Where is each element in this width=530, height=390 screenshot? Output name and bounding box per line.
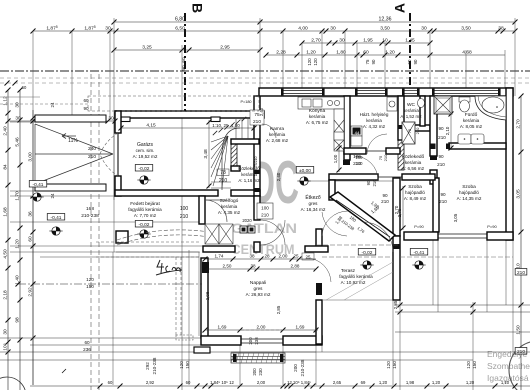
terasz diag hatch lines <box>326 262 393 300</box>
dimension row 4 top <box>266 54 505 56</box>
long dim line left-middle 120/150 <box>18 283 202 285</box>
black fixture squares <box>240 226 247 233</box>
svg-text:A: 6,56 m2: A: 6,56 m2 <box>402 166 425 171</box>
svg-text:120: 120 <box>179 361 184 369</box>
svg-text:200: 200 <box>252 368 257 376</box>
wall: wc inner divider <box>420 96 425 126</box>
nappali south steps band <box>231 353 285 363</box>
svg-text:kerámia: kerámia <box>366 118 382 123</box>
svg-text:1,40: 1,40 <box>15 275 21 285</box>
svg-text:28: 28 <box>264 254 270 259</box>
window: right wing bottom <box>438 233 487 235</box>
wall: entry bottom piece <box>231 190 260 196</box>
wall: nappali wing right upper <box>393 178 400 236</box>
dimension row 1 top <box>114 21 515 23</box>
svg-text:P=90: P=90 <box>414 224 424 229</box>
svg-text:2,08: 2,08 <box>205 291 210 300</box>
svg-text:210-238: 210-238 <box>152 357 157 374</box>
svg-text:2,85: 2,85 <box>393 300 398 309</box>
door arc hazt <box>367 134 387 154</box>
svg-text:30: 30 <box>105 26 111 32</box>
wc bowl <box>418 99 425 108</box>
svg-text:2,92: 2,92 <box>146 380 155 385</box>
svg-text:200: 200 <box>248 337 253 345</box>
svg-text:kerámia: kerámia <box>403 108 419 113</box>
svg-text:210: 210 <box>439 199 447 204</box>
svg-text:1,20: 1,20 <box>466 380 475 385</box>
svg-text:10: 10 <box>382 38 388 44</box>
svg-text:12 10⁵ 1,84⁵: 12 10⁵ 1,84⁵ <box>287 380 311 385</box>
svg-text:60: 60 <box>363 50 369 56</box>
svg-text:2,28: 2,28 <box>276 50 286 56</box>
door 75/210 kamra <box>250 110 264 125</box>
wall: house top <box>259 88 513 96</box>
svg-text:4,50: 4,50 <box>3 249 9 259</box>
svg-text:210: 210 <box>261 213 269 218</box>
svg-text:25: 25 <box>293 254 299 259</box>
svg-text:230: 230 <box>258 368 263 376</box>
svg-text:5,46: 5,46 <box>15 137 21 147</box>
windows in house top wall <box>283 91 498 94</box>
horizontal extension lines left <box>10 122 393 257</box>
svg-text:240: 240 <box>88 146 96 152</box>
svg-text:292: 292 <box>145 362 150 370</box>
svg-text:11%: 11% <box>68 138 78 144</box>
svg-text:98: 98 <box>15 317 21 323</box>
svg-text:2,00: 2,00 <box>257 380 266 385</box>
svg-text:30: 30 <box>339 38 345 44</box>
nappali bottom dims <box>205 329 318 331</box>
szelfogo cabinets X <box>205 224 233 244</box>
pier bumps under garage top wall <box>121 117 130 122</box>
svg-text:78: 78 <box>220 170 226 176</box>
svg-text:12,36: 12,36 <box>379 17 392 23</box>
garage dims outer left <box>8 120 115 122</box>
svg-text:120: 120 <box>386 361 391 369</box>
svg-text:1,20: 1,20 <box>385 50 395 56</box>
wall: wc bottom <box>404 125 430 131</box>
svg-text:210: 210 <box>415 127 420 134</box>
svg-text:38: 38 <box>249 254 255 259</box>
svg-text:Házt. helyiség: Házt. helyiség <box>360 112 389 117</box>
svg-text:150: 150 <box>392 361 397 369</box>
svg-text:kerámia: kerámia <box>405 160 422 165</box>
svg-text:A: 14,35 m2: A: 14,35 m2 <box>457 196 482 201</box>
svg-text:1,74: 1,74 <box>215 254 224 259</box>
svg-text:2,85: 2,85 <box>276 305 281 314</box>
washing machines <box>351 126 362 136</box>
svg-text:6,50: 6,50 <box>175 26 185 32</box>
svg-text:2,92: 2,92 <box>28 287 34 297</box>
svg-text:P=180: P=180 <box>240 100 251 104</box>
wall: hazt/wc divider hatched <box>398 96 404 140</box>
svg-text:30: 30 <box>421 26 427 32</box>
wall: etkezo/terasz stub left <box>316 229 322 246</box>
svg-text:A: 4,32 m2: A: 4,32 m2 <box>363 124 386 129</box>
svg-text:A: 19,52 m2: A: 19,52 m2 <box>133 154 158 159</box>
svg-text:-0,41: -0,41 <box>51 215 62 221</box>
svg-text:1,80: 1,80 <box>336 50 346 56</box>
svg-text:24: 24 <box>50 102 55 107</box>
svg-text:±0,00: ±0,00 <box>299 168 311 174</box>
wall: garage left top stub <box>115 111 121 133</box>
ramp triangle 11% <box>35 124 113 184</box>
wall: stair vestibule hatched <box>231 144 237 169</box>
svg-text:100: 100 <box>180 206 189 212</box>
wall: etkezo diagonal <box>330 192 395 241</box>
svg-text:90: 90 <box>382 193 388 198</box>
svg-text:69: 69 <box>361 380 366 385</box>
svg-text:2,95: 2,95 <box>220 45 230 51</box>
dimension row 2 top <box>33 30 515 32</box>
double sink bottom <box>458 134 471 144</box>
svg-text:90: 90 <box>371 59 376 64</box>
svg-text:1,70: 1,70 <box>15 191 21 201</box>
svg-text:36: 36 <box>28 211 34 217</box>
watermark stamp text bottom right <box>487 349 530 383</box>
svg-text:3,48: 3,48 <box>203 149 209 159</box>
svg-text:30: 30 <box>3 329 9 335</box>
svg-text:-0,41: -0,41 <box>33 182 44 188</box>
stair up slashes <box>213 117 246 135</box>
wall: furdo/szoba divider <box>449 143 506 149</box>
garage door <box>117 133 119 176</box>
svg-text:2,50: 2,50 <box>223 264 232 269</box>
svg-text:1,50: 1,50 <box>516 325 522 335</box>
svg-text:2,40: 2,40 <box>3 126 9 136</box>
svg-text:150: 150 <box>185 361 190 369</box>
etkezo door arcs <box>260 220 285 245</box>
svg-text:4,00: 4,00 <box>298 26 308 32</box>
wall: etkezo/kozlekedo bottom left segment <box>329 174 378 180</box>
svg-text:210: 210 <box>253 119 261 125</box>
svg-text:A: 8,49 m2: A: 8,49 m2 <box>404 196 427 201</box>
wall: szelfogo right lower <box>254 242 260 252</box>
svg-text:200: 200 <box>293 364 298 372</box>
svg-text:2,10: 2,10 <box>445 126 450 135</box>
entry door arc <box>205 200 227 222</box>
svg-text:210: 210 <box>180 214 189 220</box>
svg-text:2,70: 2,70 <box>311 38 321 44</box>
svg-text:3,05: 3,05 <box>453 213 458 222</box>
svg-text:gres: gres <box>309 201 319 206</box>
svg-text:210: 210 <box>381 199 389 204</box>
svg-text:60: 60 <box>186 380 191 385</box>
svg-text:84: 84 <box>3 164 9 170</box>
shower <box>434 96 452 114</box>
svg-text:Étkező: Étkező <box>305 194 321 201</box>
svg-text:120: 120 <box>313 58 318 66</box>
wall: szelfogo bottom <box>203 246 235 252</box>
wall: szelfogo right upper <box>254 196 260 220</box>
stamp circle bottom right <box>509 341 530 390</box>
wall: terasz right <box>393 236 400 300</box>
wall: etkezo east upper <box>329 180 335 200</box>
svg-text:2,40: 2,40 <box>276 172 281 181</box>
1,00 vdim <box>338 146 340 172</box>
wall: szoba top segment <box>402 174 435 180</box>
wall: szoba/szoba divider <box>433 178 439 232</box>
svg-text:2,70: 2,70 <box>394 205 399 214</box>
wall: nappali bottom right segment <box>283 336 322 345</box>
svg-text:38: 38 <box>250 264 256 269</box>
stamp circle bottom left <box>0 377 26 390</box>
wall: etkezo left / nappali left <box>201 258 208 338</box>
svg-text:90: 90 <box>438 154 444 159</box>
svg-text:75: 75 <box>407 128 412 133</box>
svg-text:3,50: 3,50 <box>380 26 390 32</box>
window dashes bottom left wall <box>176 335 193 340</box>
svg-text:10⁵: 10⁵ <box>3 343 9 350</box>
svg-text:-0,02: -0,02 <box>362 250 373 256</box>
svg-text:kerámia: kerámia <box>241 172 257 177</box>
svg-text:1,84⁵ 10⁵ 12: 1,84⁵ 10⁵ 12 <box>210 380 234 385</box>
hazt sink <box>387 97 397 111</box>
svg-text:3,50: 3,50 <box>461 26 471 32</box>
svg-text:210: 210 <box>372 179 377 187</box>
svg-text:2,00: 2,00 <box>279 254 288 259</box>
svg-text:4,68: 4,68 <box>462 50 472 56</box>
svg-text:2,88: 2,88 <box>291 264 300 269</box>
wc bowl furdo <box>459 97 470 102</box>
svg-text:A: 1,52 m2: A: 1,52 m2 <box>400 114 422 119</box>
svg-text:fagyálló kerámia: fagyálló kerámia <box>339 274 373 279</box>
terasz door arcs lens <box>322 211 348 236</box>
svg-text:210: 210 <box>356 161 364 166</box>
svg-text:3,00: 3,00 <box>28 152 34 162</box>
svg-text:1,20: 1,20 <box>379 380 388 385</box>
svg-text:60: 60 <box>108 380 113 385</box>
svg-text:44: 44 <box>355 131 360 136</box>
svg-text:75: 75 <box>365 59 370 64</box>
dimension row 3b left <box>114 49 260 51</box>
svg-text:1:10, 25, 1,00: 1:10, 25, 1,00 <box>212 123 240 128</box>
svg-text:3,05: 3,05 <box>516 189 522 199</box>
dimension row 3 top <box>302 42 430 44</box>
garage door arc dashed <box>100 133 118 176</box>
svg-text:1,10: 1,10 <box>501 380 510 385</box>
svg-text:90: 90 <box>366 180 371 185</box>
svg-text:gres: gres <box>254 286 264 291</box>
door 100/210 etkezo <box>257 203 273 219</box>
svg-text:6,80: 6,80 <box>175 17 185 23</box>
wall: nappali right (terasz left) <box>316 300 322 344</box>
wall: right wing bottom segment 1 <box>404 232 438 240</box>
svg-text:60: 60 <box>28 236 34 242</box>
svg-text:120: 120 <box>307 58 312 66</box>
svg-text:A: 16,34 m2: A: 16,34 m2 <box>301 207 326 212</box>
svg-text:210: 210 <box>383 154 388 161</box>
bottom long lines <box>0 303 530 361</box>
wall: kozlekedo/furdo stub <box>430 170 437 184</box>
stair walk line <box>222 128 240 190</box>
property boundary dash-dot line <box>0 70 530 72</box>
svg-text:1,20: 1,20 <box>306 50 316 56</box>
wall: nappali bottom left segment <box>201 336 241 345</box>
svg-text:hajópadló: hajópadló <box>459 190 479 195</box>
svg-text:210: 210 <box>219 178 228 184</box>
dashed outline top-left <box>88 96 259 111</box>
ramp lower retaining band <box>35 184 106 191</box>
black door blocks <box>254 170 260 174</box>
svg-text:A: A <box>392 3 408 13</box>
window dashed <box>241 329 283 331</box>
wall: stair vestibule top <box>231 139 259 144</box>
svg-text:38: 38 <box>498 26 504 32</box>
svg-text:A: 8,05 m2: A: 8,05 m2 <box>460 124 483 129</box>
svg-text:210: 210 <box>437 162 445 167</box>
stair treads <box>211 119 248 188</box>
svg-text:Közlekedő: Közlekedő <box>238 166 260 171</box>
porch column <box>116 231 128 243</box>
svg-text:210-238: 210-238 <box>300 359 305 376</box>
kitchen right counter <box>334 109 344 151</box>
svg-text:A: 10,92 m2: A: 10,92 m2 <box>341 280 366 285</box>
svg-text:90: 90 <box>440 192 446 197</box>
svg-text:60: 60 <box>84 340 90 345</box>
wall: garage top <box>115 111 264 118</box>
svg-text:A: 1,16 m2: A: 1,16 m2 <box>238 178 260 183</box>
bottom dimension row <box>30 385 530 387</box>
svg-text:210: 210 <box>88 154 96 160</box>
svg-text:1,20: 1,20 <box>15 239 21 249</box>
left dimension column A <box>7 90 9 390</box>
svg-text:30: 30 <box>108 116 114 122</box>
svg-text:238: 238 <box>254 337 259 345</box>
svg-text:120: 120 <box>86 277 94 282</box>
svg-text:hajópadló: hajópadló <box>405 190 425 195</box>
vertical ext lines lower <box>113 118 513 390</box>
svg-text:cem. sim.: cem. sim. <box>136 148 155 153</box>
svg-text:90: 90 <box>438 126 444 131</box>
corner step wall <box>194 347 210 353</box>
garage dims inner <box>121 127 254 129</box>
svg-text:150: 150 <box>472 361 477 369</box>
svg-text:30: 30 <box>15 102 21 108</box>
wall: stair vestibule bottom stub <box>231 166 240 171</box>
svg-text:30: 30 <box>15 116 21 122</box>
terasz dashed boundary <box>316 244 400 246</box>
svg-text:-0,02: -0,02 <box>139 166 150 172</box>
wall: garage bottom <box>115 190 218 196</box>
wall: etkezo small pier <box>305 246 328 252</box>
svg-text:B: B <box>189 3 205 13</box>
kitchen counter top <box>298 97 344 151</box>
svg-text:3,25: 3,25 <box>142 45 152 51</box>
svg-text:90: 90 <box>413 59 418 64</box>
svg-text:A: 2,68 m2: A: 2,68 m2 <box>266 138 289 143</box>
svg-text:1,69: 1,69 <box>218 325 227 330</box>
right dimension column <box>520 96 522 390</box>
svg-text:2020: 2020 <box>242 218 252 223</box>
svg-text:168: 168 <box>86 206 94 212</box>
svg-text:1,45: 1,45 <box>405 38 415 44</box>
svg-text:kerámia: kerámia <box>221 204 238 209</box>
porch steps <box>116 251 200 253</box>
svg-text:2,18: 2,18 <box>3 290 9 300</box>
svg-text:150: 150 <box>86 284 94 289</box>
wall: hazt bottom left segment <box>344 148 366 154</box>
svg-text:A: 26,93 m2: A: 26,93 m2 <box>246 292 271 297</box>
wall: szelfogo left <box>199 196 205 224</box>
svg-text:1,00: 1,00 <box>333 154 338 163</box>
svg-text:kerámia: kerámia <box>309 114 326 119</box>
svg-text:100: 100 <box>261 206 269 211</box>
wall: house left (stair/kamra divider) <box>254 96 260 196</box>
wall: right wing bottom segment 2 <box>487 232 513 240</box>
wall: hazt bottom right segment <box>386 148 400 154</box>
svg-text:210-238: 210-238 <box>81 213 99 219</box>
svg-text:2,40: 2,40 <box>259 107 264 116</box>
canopy dashed outline <box>96 242 199 336</box>
svg-text:kerámia: kerámia <box>269 132 286 137</box>
svg-text:24: 24 <box>50 193 55 198</box>
handwritten note "4 cm" <box>156 260 182 275</box>
svg-text:30: 30 <box>330 26 336 32</box>
svg-text:1,20: 1,20 <box>432 380 441 385</box>
left dimension column C <box>32 110 34 385</box>
svg-text:4,15: 4,15 <box>146 123 156 129</box>
svg-text:100: 100 <box>356 155 364 160</box>
wall: house right <box>506 88 513 240</box>
kamra door arc <box>262 124 276 138</box>
wall: konyha/hazt divider <box>344 96 350 160</box>
svg-text:A: 7,70 m2: A: 7,70 m2 <box>134 213 157 218</box>
ramp upper retaining band <box>35 115 106 122</box>
svg-text:2,00: 2,00 <box>257 325 266 330</box>
svg-text:2,65: 2,65 <box>333 380 342 385</box>
window in diagonal <box>336 200 390 237</box>
svg-text:-0,41: -0,41 <box>414 250 425 256</box>
svg-text:120: 120 <box>466 361 471 369</box>
shaft X box <box>402 122 415 144</box>
property line vertical dashed <box>90 74 92 390</box>
svg-text:1,68: 1,68 <box>3 207 9 217</box>
nappali top dims <box>205 258 316 260</box>
svg-text:2,70: 2,70 <box>516 119 522 129</box>
svg-text:210: 210 <box>517 270 525 276</box>
svg-text:fagyálló kerámia: fagyálló kerámia <box>128 207 162 212</box>
svg-text:A: 4,35 m2: A: 4,35 m2 <box>218 210 241 215</box>
door arc kozlekedo-etkezo <box>354 156 378 180</box>
svg-text:1,98: 1,98 <box>406 380 415 385</box>
left level markers <box>29 181 47 188</box>
svg-text:kerámia: kerámia <box>463 118 480 123</box>
svg-text:236: 236 <box>83 347 91 352</box>
svg-text:P=90: P=90 <box>487 224 497 229</box>
svg-text:60: 60 <box>407 59 412 64</box>
svg-text:1,95: 1,95 <box>363 38 373 44</box>
door line in wall <box>378 176 402 178</box>
porch canopy dashed arc <box>117 230 232 240</box>
left dimension column B <box>19 90 21 390</box>
svg-text:-0,02: -0,02 <box>139 222 150 228</box>
wall: garage left bottom stub <box>115 176 121 196</box>
wall: wc/furdo divider <box>430 96 437 156</box>
svg-text:1,69: 1,69 <box>296 325 305 330</box>
corner bathtub <box>475 96 506 120</box>
svg-text:A: 6,75 m2: A: 6,75 m2 <box>306 120 329 125</box>
window: nappali bottom <box>241 338 283 340</box>
boxed 25 <box>302 253 314 260</box>
